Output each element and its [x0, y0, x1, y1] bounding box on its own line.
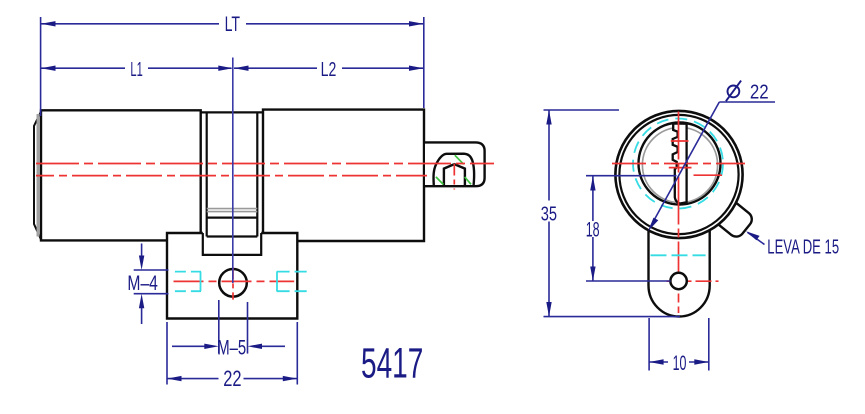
chamfer shading gray [37, 114, 40, 237]
front hole [670, 273, 686, 289]
red ticks on keyway [669, 141, 692, 168]
red crosshair horizontal (plug center) [612, 163, 745, 165]
plug circle [639, 123, 721, 205]
dimension L2 [234, 58, 424, 81]
red centerline upper (key axis) [36, 163, 494, 165]
red centerline lower (cylinder axis) [36, 175, 427, 177]
svg-text:L1: L1 [130, 58, 142, 81]
red horizontal through front hole [667, 280, 719, 282]
leader diameter 22 [648, 81, 775, 232]
cyan thread marks right of hole [277, 272, 307, 292]
red crosshair vertical [678, 112, 680, 314]
cyan line across front lug [651, 254, 706, 256]
plug gray shading circle [642, 127, 717, 202]
extension line middle vertical [232, 58, 234, 284]
svg-text:18: 18 [586, 219, 600, 242]
dimension 22 (lug width) [167, 322, 297, 391]
svg-text:LT: LT [225, 13, 241, 36]
leader LEVA DE 15 [746, 231, 839, 258]
red centerline through M5 hole horizontal [174, 280, 295, 282]
cam inner drive shape [444, 164, 465, 185]
svg-text:5417: 5417 [361, 341, 423, 388]
M5 hole in lug [219, 269, 247, 297]
cyan thread marks left of hole [175, 272, 201, 292]
outer circle (body) double [615, 111, 742, 238]
middle recess (cam ring opening) [201, 112, 263, 236]
svg-text:M–5: M–5 [217, 336, 246, 359]
front lug (stadium) [649, 226, 710, 317]
cam box at right end [425, 142, 485, 186]
part number 5417 [361, 341, 423, 388]
green hidden lines in cam box [436, 155, 471, 184]
cam tail outer (below cylinder, inside lug) [203, 233, 261, 255]
lug block below cylinder [167, 233, 297, 319]
svg-text:LEVA DE 15: LEVA DE 15 [767, 236, 839, 258]
dimension 18 [586, 176, 677, 281]
red centerline through M5 hole vertical [232, 267, 234, 299]
right body rectangle [263, 110, 424, 241]
svg-text:22: 22 [223, 366, 241, 391]
svg-text:M–4: M–4 [127, 272, 158, 295]
dimension LT [41, 13, 424, 36]
cam bump (leva) [713, 198, 755, 240]
red vertical in cam box [453, 164, 455, 190]
dimension 35 [541, 110, 680, 317]
dimension M-4 [127, 244, 168, 325]
svg-text:L2: L2 [321, 58, 337, 81]
left body rectangle [41, 110, 201, 240]
extension line right [423, 17, 425, 108]
cam lobe arch [434, 154, 475, 185]
extension line left [40, 17, 42, 116]
red short body-center line [694, 174, 723, 176]
left face chamfer [34, 112, 41, 240]
dimension M-5 [172, 300, 285, 359]
dimension L1 [41, 58, 233, 81]
svg-text:35: 35 [541, 203, 557, 225]
cyan pitch circle [633, 119, 723, 209]
recess gray line [207, 209, 258, 212]
dimension 10 [649, 318, 709, 375]
svg-text:22: 22 [750, 81, 769, 103]
svg-text:10: 10 [673, 352, 687, 375]
keyway slot [673, 124, 687, 204]
